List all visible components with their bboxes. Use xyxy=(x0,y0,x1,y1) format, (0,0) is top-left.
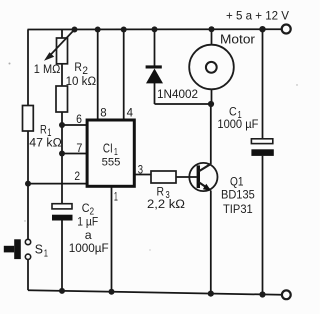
diode D1 anode triangle xyxy=(146,69,163,84)
junction: pin 4 on rail xyxy=(121,27,127,33)
wire: pin 6 stub to IC xyxy=(62,124,87,126)
wire: pin 2 horizontal line (trigger) xyxy=(28,183,87,185)
svg-text:BD135: BD135 xyxy=(221,188,255,202)
capacitor C2 bottom plate xyxy=(52,215,73,221)
wire: R3 to Q1 base xyxy=(176,176,197,178)
svg-text:3: 3 xyxy=(138,162,143,176)
junction: pin 7 node xyxy=(59,151,65,157)
svg-text:2: 2 xyxy=(74,169,80,183)
IC CI1 555 body xyxy=(87,120,134,186)
junction: motor branch on rail xyxy=(209,26,215,32)
svg-text:1 MΩ: 1 MΩ xyxy=(34,62,61,76)
capacitor C1 bottom plate xyxy=(251,149,273,156)
svg-text:1: 1 xyxy=(44,249,48,260)
motor M body xyxy=(189,45,234,90)
scan speck artifacts xyxy=(9,63,298,251)
svg-text:CI: CI xyxy=(103,140,113,155)
junction: diode branch on rail xyxy=(152,26,158,32)
terminal: ground open circle xyxy=(282,290,291,299)
wire: pin 1 from IC bottom to ground rail xyxy=(111,187,113,292)
wire: pin 3 stub from IC to R3 xyxy=(136,174,152,176)
svg-text:C: C xyxy=(82,201,90,215)
svg-text:Motor: Motor xyxy=(220,32,256,47)
wire: left vertical branch from rail to R1 xyxy=(27,30,29,106)
junction: motor / diode / collector node xyxy=(208,101,214,107)
wire: C1 branch from rail down to top plate xyxy=(262,29,264,139)
wire: pin 7 stub to IC xyxy=(62,153,87,155)
svg-text:1: 1 xyxy=(114,190,118,204)
wire: pin 4 from rail to IC top xyxy=(123,30,125,120)
wire: pot bottom to R2 top xyxy=(61,64,63,86)
svg-text:8: 8 xyxy=(100,106,107,120)
transistor Q1 collector lead xyxy=(199,164,212,172)
transistor Q1 base bar xyxy=(197,165,200,188)
potentiometer wiper arrow xyxy=(44,30,75,61)
junction: C1 branch on ground rail xyxy=(259,291,265,297)
potentiometer P1 1 MΩ body xyxy=(57,38,68,64)
svg-text:555: 555 xyxy=(102,157,121,169)
resistor R1 body xyxy=(23,106,34,132)
wire: S1 bottom to ground rail corner xyxy=(27,260,29,291)
wire: motor top lead from rail xyxy=(211,30,213,46)
transistor Q1 body circle xyxy=(189,163,217,191)
wire: diode to motor bottom junction xyxy=(155,103,212,105)
junction: pin 6 node xyxy=(59,122,65,128)
capacitor C2 top plate xyxy=(52,204,72,209)
resistor R3 body xyxy=(151,171,176,183)
motor shaft inner circle xyxy=(206,62,217,73)
junction: trigger node on left wire xyxy=(25,181,31,187)
wire: timing node down to C2 top plate xyxy=(61,154,63,205)
wire: pot top connection to rail xyxy=(61,30,63,39)
wire: diode anode down to motor node link xyxy=(154,83,156,104)
wire: R1 bottom to trigger node (pin 2 line) xyxy=(27,131,29,184)
wire: pin6 node to pin7 node xyxy=(61,125,63,154)
svg-text:1N4002: 1N4002 xyxy=(157,87,198,101)
wire: diode branch from rail down to cathode bar xyxy=(154,30,156,67)
svg-text:1000µF: 1000µF xyxy=(69,241,109,255)
terminal: +V supply open circle xyxy=(282,25,291,34)
wire: junction down to Q1 collector xyxy=(210,104,212,164)
wire: ground rail (bottom) xyxy=(28,290,282,295)
wire: R2 bottom to pin 6 junction xyxy=(61,112,63,125)
svg-text:S: S xyxy=(35,242,44,257)
svg-text:R: R xyxy=(74,60,82,74)
svg-text:a: a xyxy=(85,228,92,242)
svg-text:1 µF: 1 µF xyxy=(77,214,98,228)
wire: pin 8 from rail to IC top xyxy=(97,30,99,120)
junction: pin 8 on rail xyxy=(95,27,101,33)
resistor R2 body xyxy=(56,86,68,112)
switch S1 plunger xyxy=(14,239,21,259)
transistor Q1 emitter lead with arrow xyxy=(199,182,212,191)
svg-text:Q1: Q1 xyxy=(230,174,244,188)
wire: Q1 emitter down to ground rail xyxy=(210,191,212,294)
junction: emitter branch on ground rail xyxy=(208,291,214,297)
diode D1 cathode bar xyxy=(146,65,162,68)
svg-text:10 kΩ: 10 kΩ xyxy=(66,74,97,88)
junction: pot wiper on rail xyxy=(72,27,78,33)
svg-text:7: 7 xyxy=(76,141,82,155)
svg-text:1000 µF: 1000 µF xyxy=(217,117,258,131)
svg-text:2,2 kΩ: 2,2 kΩ xyxy=(147,197,185,211)
wire: top +V supply rail xyxy=(28,28,283,30)
svg-text:+ 5 a + 12 V: + 5 a + 12 V xyxy=(226,9,290,23)
svg-text:4: 4 xyxy=(127,106,134,120)
junction: pin1 branch on ground rail xyxy=(109,289,115,295)
wire: trigger node down to switch S1 xyxy=(27,184,29,240)
svg-text:R: R xyxy=(40,122,47,136)
junction: C2 branch on ground rail xyxy=(59,288,65,294)
wire: motor bottom lead to junction xyxy=(211,89,213,104)
svg-text:6: 6 xyxy=(76,112,82,126)
switch S1 pushbutton contacts xyxy=(25,239,30,244)
wire: C1 bottom plate to ground rail xyxy=(262,156,264,295)
junction: C1 branch on rail xyxy=(259,26,265,32)
svg-text:TIP31: TIP31 xyxy=(223,202,253,216)
capacitor C1 top plate xyxy=(251,139,272,144)
wire: C2 bottom plate to ground rail xyxy=(61,221,63,292)
svg-text:47 kΩ: 47 kΩ xyxy=(29,135,62,149)
